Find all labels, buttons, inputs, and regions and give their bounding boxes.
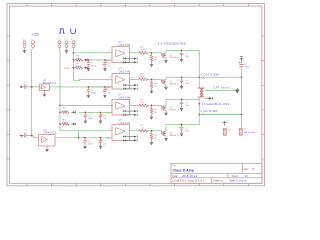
capacitor C snubber row 2 <box>181 76 183 78</box>
node A / row2 junction <box>198 76 200 78</box>
node +12V rail end / input B junction <box>31 135 33 137</box>
wire -IN net row 2 <box>88 86 110 88</box>
wire comparator U2 output <box>132 78 139 80</box>
comparator U2 pin stubs and pin numbers <box>109 78 113 80</box>
trimmer cap b row 1 <box>104 59 106 61</box>
sheet frame inner border <box>10 6 262 183</box>
comparator U2 power pin pair upper <box>123 84 134 86</box>
connector J1 pin <box>23 41 26 44</box>
resistor R tap upper <box>74 59 76 61</box>
wire node B vertical <box>198 97 200 125</box>
svg-text:1: 1 <box>131 129 132 131</box>
node OUT_B column junction <box>241 114 243 116</box>
global label arrow tap lower <box>84 67 86 69</box>
node B transformer junction <box>198 103 200 105</box>
wire buffer A output <box>50 86 114 88</box>
svg-text:J?: J? <box>71 39 73 41</box>
wire comparator U3 output <box>132 104 139 106</box>
svg-text:4_OUT B (SW): 4_OUT B (SW) <box>201 110 218 113</box>
ground source row 3 <box>165 110 167 112</box>
ground cap a row 1 <box>88 67 90 69</box>
connector J2 pin <box>32 41 35 44</box>
wire buffer B output <box>55 137 60 139</box>
ground cap b row 1 <box>104 67 106 69</box>
node gate junction row 3 <box>148 104 158 106</box>
ground cap a row 4 <box>84 145 86 147</box>
comparator U1 power pin pair lower <box>123 61 134 63</box>
wire -IN net row 1 <box>88 59 110 61</box>
resistor R gate row 1 <box>139 52 148 55</box>
global label IN_B arrow <box>20 135 23 137</box>
ground source row 2 <box>165 84 167 86</box>
wire input A to buffer <box>28 86 39 88</box>
node audio/comparator1 junction <box>73 52 75 54</box>
connector J battery <box>223 129 226 136</box>
svg-text:1:1 Isolat P8-C1-1C19: 1:1 Isolat P8-C1-1C19 <box>202 102 230 106</box>
wire input B to buffer <box>28 135 33 137</box>
comparator U2 body <box>112 73 130 89</box>
U wave note glyph <box>71 29 76 34</box>
svg-text:4 x CSD18537ND: 4 x CSD18537ND <box>158 41 187 45</box>
svg-text:OPA1611: OPA1611 <box>44 132 57 135</box>
ground pulldown row 2 <box>151 90 153 92</box>
wire -IN net row 4 <box>60 137 110 139</box>
node gate junction row 2 <box>148 78 158 80</box>
node gate junction row 1 <box>148 52 158 54</box>
svg-text:LM319M: LM319M <box>119 44 131 47</box>
comparator U1 body <box>112 47 130 63</box>
svg-text:1: 1 <box>203 86 204 88</box>
wire to comparator2 +IN <box>74 80 80 82</box>
wire comparator U1 output <box>132 52 139 54</box>
ground pulldown row 1 <box>151 63 153 65</box>
svg-text:(+): (+) <box>228 130 231 132</box>
capacitor C snubber row 4 <box>181 124 183 126</box>
resistor R bus tap upper <box>59 111 61 113</box>
resistor R pulldown row 3 <box>151 105 153 107</box>
node supply cap junction <box>241 76 243 78</box>
wire supply column down <box>241 77 243 114</box>
wire OUT_B to speaker connector <box>199 114 241 116</box>
svg-text:3: 3 <box>109 51 110 53</box>
wire -IN net row 3 <box>79 111 110 113</box>
transistor Q2 NMOS <box>158 78 162 80</box>
comparator U3 power pin pair upper <box>123 110 134 112</box>
resistor R bus tap lower <box>59 123 61 125</box>
comparator U3 power pin pair lower <box>123 114 134 116</box>
svg-text:3: 3 <box>109 103 110 105</box>
svg-text:J?: J? <box>31 39 33 41</box>
capacitor C input A <box>23 86 26 88</box>
svg-text:+(IN: +(IN <box>106 138 111 140</box>
resistor R tap lower <box>74 67 76 69</box>
ground cap a row 2 <box>88 94 90 96</box>
ground pulldown row 3 <box>151 116 153 118</box>
ground source row 4 <box>165 136 167 138</box>
ground snubber row 1 <box>181 58 183 60</box>
svg-text:(LPF boost): (LPF boost) <box>213 86 230 89</box>
svg-text:NMOS_S: NMOS_S <box>170 57 180 59</box>
global label arrow bus tap lower <box>71 123 73 125</box>
wire triangle bus vertical <box>59 49 61 131</box>
comparator U3 body <box>112 99 130 115</box>
wire bus to comparator3 +IN <box>60 104 113 106</box>
wire comparator U4 output <box>132 130 139 132</box>
wire transformer secondary bottom stub <box>204 97 206 99</box>
svg-text:1: 1 <box>131 51 132 53</box>
comparator U1 pin stubs and pin numbers <box>109 52 113 54</box>
wire drain to node row 2 <box>165 77 167 80</box>
wire down to speaker connector <box>241 115 243 129</box>
global label IN_A arrow <box>20 86 23 88</box>
comparator U1 power pin pair upper <box>123 58 134 60</box>
wire drain to node row 4 <box>165 125 167 132</box>
svg-text:4_OUT A (SW): 4_OUT A (SW) <box>201 74 220 77</box>
capacitor C filter a row 4 <box>84 137 86 139</box>
svg-text:Class D Amp: Class D Amp <box>173 169 194 173</box>
svg-text:100n: 100n <box>88 144 94 146</box>
ground cap b row 3 <box>100 120 102 122</box>
ground pulldown row 4 <box>151 141 153 143</box>
svg-text:+12V: +12V <box>31 32 39 36</box>
ground power cross above battery connector <box>224 121 226 126</box>
frame division ticks top/bottom <box>26 4 28 7</box>
svg-text:NMOS_S: NMOS_S <box>170 135 180 137</box>
wire +12V rail vertical <box>31 49 33 136</box>
svg-text:1: 1 <box>60 39 61 41</box>
ground under connector J4 <box>66 49 68 51</box>
comparator U3 pin stubs and pin numbers <box>109 104 113 106</box>
svg-text:PWM: PWM <box>64 68 70 70</box>
svg-text:100n: 100n <box>88 118 94 120</box>
op-amp U buffer A <box>39 84 49 91</box>
ground cap b row 4 <box>100 145 102 147</box>
comparator U2 power pin pair lower <box>123 88 134 90</box>
svg-text:LM319M: LM319M <box>119 97 131 100</box>
trimmer cap b row 3 <box>100 111 102 113</box>
svg-text:LM319M: LM319M <box>119 71 131 74</box>
trimmer cap b row 4 <box>100 137 102 139</box>
svg-text:1: 1 <box>25 39 26 41</box>
svg-text:OpenCircuits: OpenCircuits <box>229 180 247 183</box>
node gate junction row 4 <box>148 130 158 132</box>
global label arrow tap upper <box>84 59 86 61</box>
transformer T1 1:1 <box>197 87 204 89</box>
comparator U4 power pin pair lower <box>123 139 134 141</box>
sheet frame outer border <box>7 4 265 186</box>
svg-text:KiCad E.D.A. kicad (5.0.2)-1: KiCad E.D.A. kicad (5.0.2)-1 <box>172 180 205 183</box>
power +12V arrow right <box>241 59 243 61</box>
svg-text:NMOS_S: NMOS_S <box>170 84 180 86</box>
svg-text:J?: J? <box>22 39 24 41</box>
svg-text:100n: 100n <box>91 93 97 95</box>
comparator U4 body <box>112 125 130 141</box>
transistor Q4 NMOS <box>158 130 162 132</box>
capacitor C input B <box>23 135 26 137</box>
svg-text:LM319M: LM319M <box>119 122 131 125</box>
title block divider lines <box>171 172 262 174</box>
resistor R pulldown row 1 <box>151 53 153 55</box>
resistor R gate row 3 <box>139 104 148 107</box>
title block outline <box>171 163 262 183</box>
ground snubber row 3 <box>181 107 183 109</box>
capacitor C filter a row 2 <box>88 86 90 88</box>
global label arrow bus tap upper <box>71 111 73 113</box>
comparator U4 power pin pair upper <box>123 136 134 138</box>
ground snubber row 4 <box>181 132 183 134</box>
comparator U4 pin stubs and pin numbers <box>109 130 113 132</box>
connector J speaker <box>239 129 242 136</box>
ground cap a row 3 <box>84 120 86 122</box>
frame division ticks left/right <box>7 35 10 37</box>
svg-text:1: 1 <box>67 39 68 41</box>
connector J3 pin <box>58 41 61 44</box>
svg-text:J?: J? <box>64 39 66 41</box>
ground cap b row 2 <box>104 94 106 96</box>
svg-text:1: 1 <box>131 77 132 79</box>
wire audio input vertical <box>73 49 75 81</box>
global label arrow speaker plus <box>235 89 237 91</box>
resistor R pulldown row 4 <box>151 131 153 133</box>
wire bus corner to comparator4 +IN <box>60 130 110 132</box>
transistor Q1 NMOS <box>158 52 162 54</box>
ground snubber row 2 <box>181 85 183 87</box>
trimmer cap b row 2 <box>104 86 106 88</box>
transistor Q3 NMOS <box>158 104 162 106</box>
wire transformer secondary top to speaker <box>205 89 235 91</box>
wire drain to node row 1 <box>165 50 167 53</box>
connector J4 pin <box>65 41 68 44</box>
node bus to comparator3 <box>59 104 61 106</box>
resistor R pulldown row 2 <box>151 79 153 81</box>
ground source row 1 <box>165 58 167 60</box>
wire OUT_A to supply cap <box>199 76 241 78</box>
node B out junction <box>198 114 200 116</box>
svg-text:Rev:: Rev: <box>244 169 249 171</box>
capacitor C filter a row 1 <box>88 59 90 61</box>
svg-text:NMOS_S: NMOS_S <box>170 110 180 112</box>
wire audio to comparator1 +IN <box>74 52 110 54</box>
svg-text:3: 3 <box>109 77 110 79</box>
square wave note glyph <box>59 29 65 33</box>
capacitor C bulk supply <box>241 61 243 64</box>
svg-text:1: 1 <box>74 39 75 41</box>
svg-text:MCP6541: MCP6541 <box>43 82 57 85</box>
capacitor C snubber row 3 <box>181 98 183 100</box>
ground under buffer B <box>46 146 48 148</box>
op-amp U buffer B <box>39 134 55 146</box>
wire branch row4 +IN to -IN <box>78 131 80 138</box>
svg-text:1: 1 <box>131 103 132 105</box>
connector J5 pin <box>72 41 75 44</box>
node +12V rail / input A junction <box>31 86 33 88</box>
svg-text:J?: J? <box>57 39 59 41</box>
capacitor C filter a row 3 <box>84 111 86 113</box>
ground under buffer A <box>43 91 45 93</box>
svg-text:470u: 470u <box>244 67 250 69</box>
ground under connector J1 <box>24 49 26 51</box>
resistor R gate row 2 <box>139 78 148 81</box>
svg-text:3: 3 <box>109 129 110 131</box>
global label arrow secondary bottom <box>206 97 209 99</box>
svg-text:File:: File: <box>172 165 176 167</box>
svg-text:100n: 100n <box>91 66 97 68</box>
svg-text:1: 1 <box>34 39 35 41</box>
svg-text:+(IN: +(IN <box>106 112 111 114</box>
resistor R gate row 4 <box>139 130 148 133</box>
capacitor C snubber row 1 <box>181 49 183 51</box>
power flag glyph mid column <box>236 88 238 93</box>
wire drain to node row 3 <box>165 99 167 106</box>
wire node A vertical <box>198 50 200 88</box>
